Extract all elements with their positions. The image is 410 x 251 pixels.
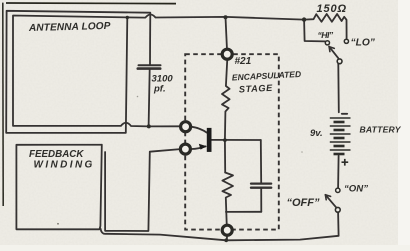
switch S1 contact HI — [325, 41, 329, 45]
capacitor C1 bottom plate — [138, 67, 160, 70]
wire bottom rail from feedback kink to off switch — [101, 212, 339, 240]
svg-text:WINDING: WINDING — [34, 160, 95, 171]
svg-text:FEEDBACK: FEEDBACK — [29, 149, 84, 160]
junction node antenna inner — [126, 16, 129, 19]
svg-text:9v.: 9v. — [310, 128, 323, 139]
switch S2 pole — [335, 207, 340, 212]
svg-text:“OFF”: “OFF” — [287, 197, 320, 209]
encapsulated stage dashed box — [185, 54, 279, 229]
antenna loop outer turn — [6, 11, 150, 133]
capacitor C2 bottom plate — [251, 186, 271, 188]
svg-text:#21: #21 — [235, 56, 252, 67]
speck artifact 1 — [57, 223, 59, 225]
battery plus sign — [342, 159, 349, 166]
switch S1 arrowhead — [329, 47, 334, 52]
wire from W1 to stage top terminal — [226, 17, 227, 47]
wire stage bottom terminal to bottom rail — [226, 237, 228, 241]
battery lead minus — [342, 113, 347, 115]
speck artifact 2 — [137, 96, 139, 98]
terminal circle top — [222, 49, 232, 59]
switch S2 contact ON — [336, 188, 340, 192]
svg-text:pf.: pf. — [153, 84, 166, 95]
transistor Q1 base lead from terminal 1 — [192, 127, 207, 133]
resistor R2 inside stage (bottom) — [222, 173, 233, 224]
scan border top — [6, 2, 176, 5]
resistor R1 inside stage (top) — [222, 61, 230, 140]
wire switch pole to battery — [337, 64, 340, 113]
wire HI branch — [304, 20, 325, 42]
capacitor C2 lead to bottom — [260, 188, 262, 212]
scan border left — [2, 3, 4, 206]
transistor Q1 emitter arrowhead — [199, 144, 207, 150]
antenna loop inner turn with hop over outer turn — [13, 16, 180, 127]
svg-text:BATTERY: BATTERY — [360, 125, 402, 135]
switch S1 pole — [337, 59, 342, 64]
battery B1 plates — [330, 118, 351, 154]
switch S2 arrowhead — [325, 195, 330, 200]
switch S1 arm — [329, 47, 338, 59]
terminal circle upper-left — [181, 122, 191, 132]
junction node cap/H1 — [147, 124, 151, 128]
wire collector node to lower branch — [224, 140, 226, 172]
svg-text:“LO”: “LO” — [351, 38, 376, 49]
feedback winding outer turn — [16, 145, 101, 230]
terminal circle bottom — [222, 225, 232, 235]
resistor R3 150 ohm — [304, 14, 347, 39]
feedback winding inner turn — [105, 149, 180, 231]
capacitor C1 lead to node — [149, 69, 150, 127]
wire W1 top with hop over capacitor lead — [127, 14, 304, 19]
transistor Q1 base bar — [207, 128, 212, 152]
capacitor C1 top plate — [139, 64, 161, 66]
wire collector to cap branch — [211, 139, 260, 141]
speck artifact 3 — [301, 151, 303, 153]
svg-text:“ON”: “ON” — [344, 184, 368, 195]
svg-text:ANTENNA LOOP: ANTENNA LOOP — [28, 21, 111, 34]
junction node collector — [223, 138, 227, 142]
capacitor C2 top plate — [251, 183, 271, 185]
capacitor C2 lead down — [260, 140, 262, 183]
terminal circle lower-left — [180, 144, 190, 154]
wire battery bottom to ON contact — [337, 156, 340, 188]
junction node bottom rail — [224, 238, 228, 242]
junction node W1/switch — [302, 17, 306, 21]
svg-text:STAGE: STAGE — [239, 83, 274, 95]
svg-text:“HI”: “HI” — [318, 30, 334, 40]
svg-text:150Ω: 150Ω — [317, 3, 348, 15]
wire cap return tee — [226, 211, 261, 213]
switch S1 contact LO — [344, 39, 348, 43]
junction node W1/stage — [224, 15, 228, 19]
switch S2 arm — [325, 195, 336, 208]
transistor Q1 emitter lead from terminal 2 — [192, 146, 206, 149]
